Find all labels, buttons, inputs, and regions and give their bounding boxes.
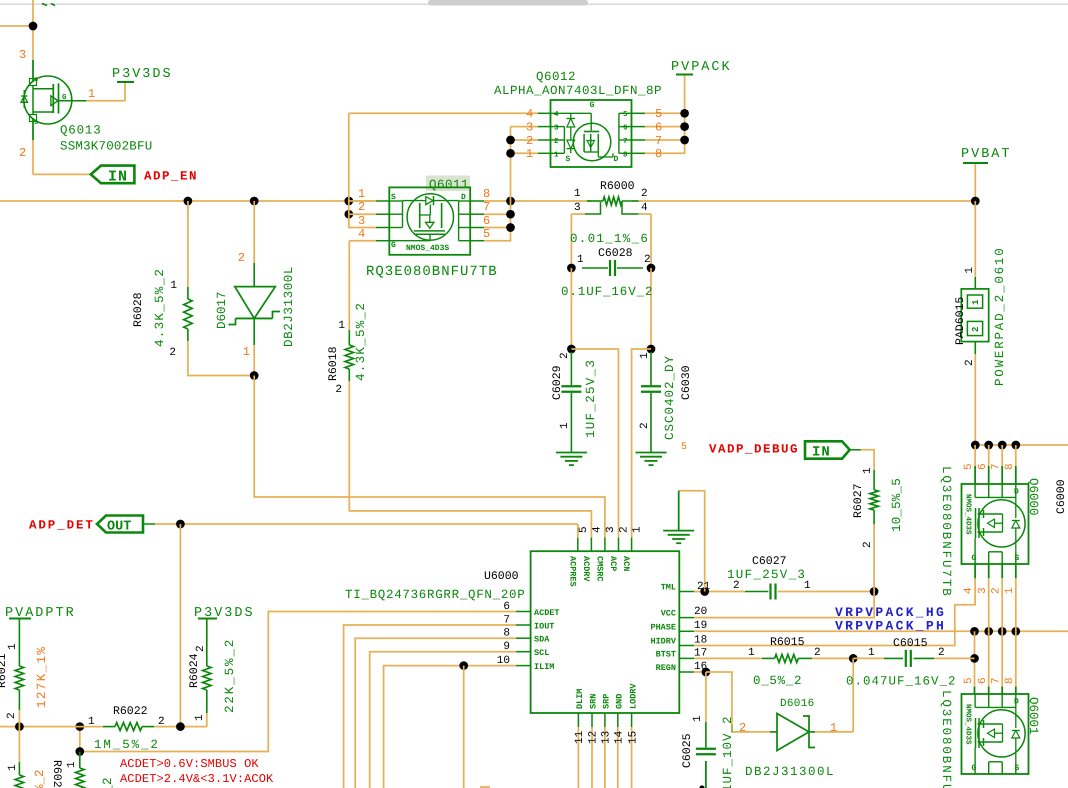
svg-text:2: 2 [938,647,945,659]
svg-text:2: 2 [971,327,981,332]
resistor R6018 [327,302,368,396]
svg-text:8: 8 [483,187,490,201]
svg-text:S: S [391,193,396,202]
transistor Q6001 [939,677,1040,788]
junction (988.7,631.3) [984,627,993,636]
svg-text:2: 2 [990,587,1002,594]
net name VRPVPACK_PH [835,619,946,634]
wire HIDRV row to Q6000 gate [694,564,975,646]
svg-text:S: S [1015,764,1020,773]
svg-text:G: G [62,93,67,102]
wire Q6000 pin6 drop [988,445,990,484]
wire ADP_DET row to ACPRES [155,524,578,538]
junction (704.7,591.5) [700,587,709,596]
svg-text:4: 4 [641,202,648,214]
wire Q6000 pin3 drop [988,564,990,631]
junction (348.8,214.2) [344,210,353,219]
svg-text:5: 5 [483,227,490,241]
wire Q6012 pin7 stub [645,139,685,141]
svg-text:D: D [1014,488,1019,497]
svg-text:14: 14 [614,730,626,744]
wire stub bottom edge [480,786,490,788]
svg-text:C6015: C6015 [893,637,928,650]
svg-text:8: 8 [1004,677,1016,684]
resistor R6024 [188,619,237,722]
svg-text:1: 1 [358,187,365,201]
svg-text:1: 1 [194,714,206,721]
svg-text:Q6000: Q6000 [1026,478,1040,516]
wire C6025 bottom [705,761,707,788]
wire vertical into Q6013 drain [32,0,34,174]
wire Q6000 pin7 drop [1001,445,1003,484]
svg-text:ADP_EN: ADP_EN [144,170,198,184]
svg-text:ACDET>0.6V:SMBUS OK: ACDET>0.6V:SMBUS OK [120,757,259,771]
junction (510.5,227.5) [506,223,515,232]
wire PVBAT junction [974,163,976,201]
svg-text:ILIM: ILIM [534,662,554,672]
wire C6028-1 to C6029 [570,268,572,349]
svg-text:1: 1 [692,715,704,722]
svg-text:TI_BQ24736RGRR_QFN_20P: TI_BQ24736RGRR_QFN_20P [345,588,525,602]
svg-text:CSC0402_DY: CSC0402_DY [663,355,677,440]
junction (853.2,658.4) [849,654,858,663]
wire Q6012 pin6 stub [645,126,685,128]
junction (348.8,201) [344,197,353,206]
wire DLIM drop [577,727,579,788]
svg-text:3: 3 [19,48,26,62]
scrollbar thumb [428,0,588,6]
svg-text:s: s [34,76,38,84]
wire Q6001 pin8 drop [1015,631,1017,694]
junction (874.1,591.5) [870,587,879,596]
resistor R6021 [0,619,49,727]
svg-text:22K_5%_2: 22K_5%_2 [223,638,237,713]
net label P3V3DS at R6024 [194,606,255,621]
wire SRN drop [591,727,593,788]
svg-text:6: 6 [503,601,510,613]
svg-text:%_2: %_2 [33,769,47,788]
svg-text:C6027: C6027 [752,555,787,568]
junction (571.4,268) [567,264,576,273]
junction (463.7,665.6) [459,661,468,670]
svg-text:D: D [461,193,466,202]
svg-text:1: 1 [88,87,95,101]
port IN ADP_EN [91,166,135,186]
wire ILIM branch down [463,666,465,788]
wire VCC row [694,592,874,618]
wire ACDET net [80,612,516,752]
scrollbar track [0,3,1068,5]
net name VADP_DEBUG [709,443,799,457]
svg-text:6: 6 [483,214,490,228]
wire D6016 cathode up [815,658,853,732]
junction (975.3,201) [971,197,980,206]
svg-text:VRPVPACK_PH: VRPVPACK_PH [835,619,946,634]
wire Q6000 pin8 drop [1015,445,1017,484]
svg-text:C6029: C6029 [551,365,564,400]
svg-text:1: 1 [7,643,19,650]
svg-text:2: 2 [238,251,245,265]
svg-text:SSM3K7002BFU: SSM3K7002BFU [60,140,152,154]
svg-text:6: 6 [977,677,989,684]
net label PVBAT [961,147,1012,163]
svg-text:G: G [391,241,396,250]
wire SDA row [355,638,516,788]
wire R6028 top [187,201,189,287]
svg-text:2: 2 [526,134,533,148]
transistor Q6011 [358,176,498,281]
wire Q6011 pin6 stub [484,227,511,229]
wire C6028-2 to C6030 [650,268,652,349]
wire PHASE row [694,630,1068,632]
junction (684.6,140) [680,136,689,145]
svg-text:1: 1 [526,147,533,161]
resistor R6000 [570,180,649,246]
svg-text:7: 7 [503,615,510,627]
wire PVPACK vertical [645,75,685,154]
svg-text:2: 2 [641,188,648,200]
svg-text:21: 21 [697,581,711,593]
net name ADP_EN [144,170,198,184]
svg-text:R6015: R6015 [770,636,805,649]
svg-text:CMSRC: CMSRC [594,556,604,582]
junction (1015.8,445) [1011,441,1020,450]
svg-text:3: 3 [977,587,989,594]
svg-text:ADP_DET: ADP_DET [29,519,95,533]
capacitor C6015 [846,637,975,689]
svg-text:1: 1 [577,254,584,266]
wire Q6012 pin3 stub [511,126,539,128]
svg-text:0.01_1%_6: 0.01_1%_6 [570,232,649,246]
svg-text:3: 3 [605,526,617,533]
wire REGN row [694,671,706,673]
net label P3V3DS at Q6013 [112,67,173,82]
svg-text:1: 1 [830,721,837,735]
resistor R6015 [748,636,821,688]
svg-text:OUT: OUT [107,520,131,535]
diode D6016 [739,698,837,779]
svg-text:Q6012: Q6012 [536,70,576,84]
junction (1002.2,631.3) [998,627,1007,636]
svg-text:2: 2 [158,716,165,728]
svg-text:Q6013: Q6013 [60,124,102,138]
note ACDET threshold 1 [120,757,259,771]
svg-text:4: 4 [358,227,365,241]
resistor R6023 [50,752,115,788]
svg-text:PVBAT: PVBAT [961,147,1012,162]
junction (705.9,672) [702,668,711,677]
net label PVPACK [671,60,732,75]
junction (1015.8,631.3) [1011,627,1020,636]
svg-text:1: 1 [554,151,559,159]
svg-text:ACDET: ACDET [534,608,560,618]
wire Q6001 pin7 drop [1001,631,1003,694]
wire TML row [694,591,874,593]
svg-text:1UF_25V_3: 1UF_25V_3 [584,359,598,438]
svg-text:3: 3 [574,202,581,214]
wire Q6011 pin4 gate down to R6018 [349,241,376,330]
svg-text:LQ3E080BNFU7TB: LQ3E080BNFU7TB [939,466,953,598]
wire Q6000 pin5 drop [974,445,976,484]
diode D6017 [215,251,296,359]
junction (254.2,375.5) [250,371,259,380]
svg-text:4.3K_5%_2: 4.3K_5%_2 [354,302,368,381]
svg-text:1: 1 [862,467,874,474]
svg-text:1: 1 [338,320,345,332]
net name ADP_DET [29,519,95,533]
svg-text:4.3K_5%_2: 4.3K_5%_2 [153,268,167,347]
svg-text:1: 1 [868,647,875,659]
transistor Q6000 [939,463,1068,597]
resistor R6028 [132,268,192,359]
clipped green text top edge [42,4,55,6]
wire D6017 node to CMSRC [254,376,605,538]
junction (988.7,445) [984,441,993,450]
wire GND drop [617,727,619,788]
svg-text:5: 5 [578,526,590,533]
svg-text:1: 1 [243,345,250,359]
svg-text:7: 7 [655,134,662,148]
svg-text:TML: TML [661,583,676,593]
svg-text:RQ3E080BNFU7TB: RQ3E080BNFU7TB [366,264,498,280]
svg-text:IN: IN [812,445,831,461]
svg-text:BTST: BTST [656,649,676,659]
svg-text:7: 7 [990,463,1002,470]
svg-text:SRP: SRP [602,694,612,709]
wire R6000 sense tap 4 [639,214,652,268]
svg-text:HIDRV: HIDRV [650,637,676,647]
capacitor C6030 [639,352,693,452]
svg-text:LODRV: LODRV [628,683,638,709]
junction (180.4,524) [176,520,185,529]
wire PAD6015 pin2 to pack bus [974,354,976,445]
svg-text:7: 7 [623,138,628,146]
svg-text:R6000: R6000 [600,180,635,193]
svg-text:R6027: R6027 [852,483,865,518]
wire PAD6015 pin1 [974,201,976,277]
wire ADP main bus [0,200,975,202]
wire D6017 bottom node [253,345,255,376]
resistor below R6021 [7,727,47,788]
junction (79.8,751.5) [75,747,84,756]
wire net to left edge top [0,25,33,27]
svg-text:VADP_DEBUG: VADP_DEBUG [709,443,799,457]
svg-text:R6021: R6021 [0,653,9,688]
junction (510.5,153.3) [506,149,515,158]
svg-text:P3V3DS: P3V3DS [112,67,173,82]
svg-text:5: 5 [655,107,662,121]
svg-text:11: 11 [574,730,586,744]
wire Q6013 gate to P3V3DS [86,82,125,101]
junction (510.5,214.2) [506,210,515,219]
svg-text:2: 2 [644,254,651,266]
svg-text:SCL: SCL [534,648,549,658]
wire C6025 top [705,672,707,722]
svg-text:Q6011: Q6011 [429,178,469,192]
svg-text:127K_1%: 127K_1% [35,646,49,708]
svg-text:G: G [972,554,977,563]
svg-text:D6017: D6017 [215,291,229,329]
junction (651,349) [647,345,656,354]
svg-text:4: 4 [963,587,975,594]
junction (974.5,658.4) [970,654,979,663]
wire IOUT row [344,625,516,788]
wire R6027 bottom [873,524,875,591]
svg-text:20: 20 [694,606,707,618]
svg-text:1: 1 [88,716,95,728]
svg-text:8: 8 [655,147,662,161]
capacitor C6025 [681,715,735,788]
capacitor C6029 [551,352,598,452]
svg-text:0.1UF_16V_2: 0.1UF_16V_2 [561,285,653,299]
wire PVPACK drain bus [975,444,1068,446]
svg-text:ACPRES: ACPRES [567,556,577,587]
svg-text:C6025: C6025 [681,733,694,768]
junction (79.8,726.6) [75,722,84,731]
junction (510.5,201) [506,197,515,206]
svg-text:2: 2 [559,352,571,359]
connector PAD6015 [954,246,1007,386]
svg-text:2: 2 [964,359,976,366]
junction (1002.2,445) [998,441,1007,450]
ground at C6030 [636,453,667,466]
svg-text:10: 10 [497,655,510,667]
svg-text:13: 13 [601,731,613,744]
junction (974.5,631.3) [970,627,979,636]
svg-text:1: 1 [971,299,981,305]
svg-text:1: 1 [964,267,976,274]
net name VRPVPACK_HG [835,605,946,620]
wire TML gnd branch [679,491,705,592]
wire Q6000 pin1 drop [1015,564,1017,631]
svg-text:NMOS_4D3S: NMOS_4D3S [964,704,973,745]
wire Q6012 pin2 stub [511,139,539,141]
svg-text:DB2J31300L: DB2J31300L [282,266,296,347]
port IN VADP_DEBUG [805,441,861,460]
svg-text:R6018: R6018 [327,346,340,381]
svg-text:1: 1 [170,280,177,292]
svg-text:ACDET>2.4V&<3.1V:ACOK: ACDET>2.4V&<3.1V:ACOK [120,772,274,786]
junction (254.2,201) [250,197,259,206]
svg-text:2: 2 [19,146,26,160]
svg-text:C6028: C6028 [598,247,633,260]
svg-text:1: 1 [1004,587,1016,594]
wire Q6001 pin6 drop [988,631,990,694]
wire REGN to D6016 anode [706,672,770,732]
svg-text:0.047UF_16V_2: 0.047UF_16V_2 [846,675,957,689]
svg-text:17: 17 [694,648,707,660]
wire Q6012 pin5 stub [645,112,685,114]
svg-text:4: 4 [591,526,603,533]
svg-text:SRN: SRN [589,694,599,709]
junction (187.9,201) [184,197,193,206]
junction (684.6,113.3) [680,109,689,118]
wire node to ACN pin1 [632,349,651,538]
svg-text:s: s [34,119,38,127]
wire R6028 bottom elbow to D6017 node [188,341,251,376]
svg-text:ACP: ACP [608,556,618,571]
wire D6017 top [253,201,255,263]
svg-text:U6000: U6000 [484,570,519,583]
svg-text:IOUT: IOUT [534,622,554,632]
svg-text:9: 9 [503,641,510,653]
svg-text:1: 1 [559,422,571,429]
svg-text:G: G [590,101,595,110]
svg-text:7: 7 [990,677,1002,684]
wire BTST row [694,657,853,659]
wire Q6013 source to IN port [33,173,91,175]
svg-text:2: 2 [6,712,18,719]
port OUT ADP_DET [97,516,155,535]
svg-text:Q6001: Q6001 [1026,697,1040,735]
svg-text:GND: GND [615,694,625,709]
IC U6000 [345,526,711,744]
wire node to ACP pin2 [571,349,618,538]
wire Q6012 pin4 from vertical [349,113,538,227]
svg-text:6: 6 [623,124,628,133]
wire Q6011 pin7 stub [484,213,511,215]
svg-text:2: 2 [554,137,559,146]
svg-text:8: 8 [623,150,628,159]
junction (19.4,726.6) [15,722,24,731]
svg-text:SDA: SDA [534,635,550,645]
transistor Q6013 [19,48,152,160]
svg-text:3: 3 [358,214,365,228]
svg-text:15: 15 [627,731,639,744]
svg-text:2: 2 [169,347,176,359]
svg-text:C6000: C6000 [1055,479,1068,514]
wire SCL row [370,652,516,788]
svg-text:NMOS_4D3S: NMOS_4D3S [964,494,973,535]
svg-text:%_2: %_2 [101,777,115,788]
svg-text:6: 6 [977,463,989,470]
wire Q6012 left pins vertical [484,127,511,241]
svg-text:ACDRV: ACDRV [581,556,591,582]
svg-text:19: 19 [694,620,707,632]
svg-text:1: 1 [639,352,651,359]
wire R6018 bottom to ACDRV [349,381,591,538]
junction (180.4,726.6) [176,722,185,731]
resistor R6027 [852,467,904,548]
svg-text:1: 1 [632,526,644,533]
wire SRP drop [604,727,606,788]
pin2 mark C6025 [699,785,704,788]
svg-text:1UF_25V_3: 1UF_25V_3 [727,568,806,582]
ground at TML branch [663,531,694,544]
svg-text:PVPACK: PVPACK [671,60,732,75]
svg-text:ALPHA_AON7403L_DFN_8P: ALPHA_AON7403L_DFN_8P [494,84,662,98]
capacitor C6027 [727,555,811,600]
svg-text:1UF_10V_2: 1UF_10V_2 [721,715,735,788]
net label PVADPTR [5,606,76,621]
svg-text:2: 2 [739,721,746,735]
svg-text:R6023: R6023 [50,760,63,788]
svg-text:12: 12 [588,731,600,744]
junction (571.4,349) [567,345,576,354]
wire VADP_DEBUG to R6027 [861,450,874,470]
wire Q6000 pin2 drop [1001,564,1003,631]
svg-text:1: 1 [574,188,581,200]
svg-text:1: 1 [66,761,78,768]
svg-text:D6016: D6016 [780,698,815,710]
wire ILIM row [384,666,516,788]
svg-text:PHASE: PHASE [650,622,676,632]
svg-text:2: 2 [619,526,631,533]
junction (684.6,126.6) [680,122,689,131]
svg-text:2: 2 [335,384,342,396]
svg-text:5: 5 [681,442,687,453]
svg-text:NMOS_4D3S: NMOS_4D3S [406,244,449,253]
